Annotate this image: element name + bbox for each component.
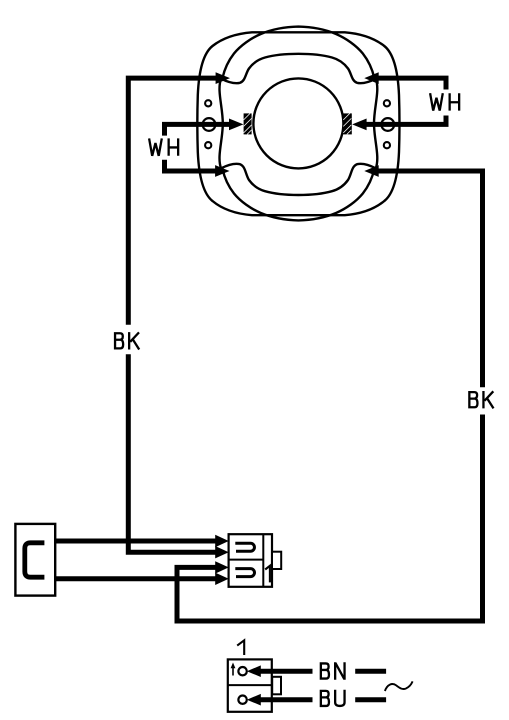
wire: BU lead [259, 697, 313, 702]
motor mounting hole right top [384, 100, 390, 106]
motor mounting hole right bottom [384, 142, 390, 148]
plug connector divider [228, 684, 272, 686]
plug connector label 1 [237, 640, 244, 655]
motor M1 housing outline [197, 32, 399, 215]
arrow into plug pin top [247, 665, 261, 677]
wire: bottom-right winding lead to right BK vertical upper [377, 171, 483, 387]
arrow into connector pin 3 [215, 561, 229, 573]
arrow into left brush [229, 119, 243, 131]
connector X1 latch tab [272, 552, 281, 569]
wire: WH bracket left upper (to left brush) [165, 124, 232, 135]
connector X1 body [229, 534, 272, 587]
arrow into connector pin 4 [215, 573, 229, 585]
arrow into bottom-left winding [215, 165, 229, 177]
motor M1 stator bore contour with field winding smiles [220, 54, 378, 195]
wire: right BK vertical lower, bottom run, up to connector pin 3 [177, 415, 483, 622]
wire: capacitor bottom lead to connector pin 4 [55, 576, 217, 581]
arrow into top-left winding [216, 72, 230, 84]
AC symbol ~ [385, 681, 413, 691]
connector X1 terminal bottom [235, 569, 254, 577]
arrow into plug pin bottom [247, 694, 261, 706]
brush right (hatched) [343, 113, 352, 134]
wire: WH bracket left lower (to bottom-left winding) [165, 160, 218, 171]
wire: WH bracket right lower (to right brush) [365, 116, 446, 125]
arrow into connector pin 2 [215, 546, 229, 558]
motor terminal hole left middle [203, 118, 216, 131]
arrow into connector pin 1 [215, 535, 229, 547]
connector X1 pin label 1 [265, 566, 270, 583]
arrow into top-right winding [364, 72, 378, 84]
label WH right [430, 93, 443, 110]
motor mounting hole left top [205, 100, 211, 106]
brush left (hatched) [244, 113, 252, 134]
plug polarity arrow (small up arrow) [232, 666, 234, 676]
plug latch tab [272, 677, 281, 695]
wire: BN lead [259, 669, 313, 674]
wire: capacitor top lead to connector pin 1 [55, 539, 217, 544]
connector X1 inner column line [262, 534, 264, 587]
wire: BU dash [355, 697, 386, 702]
motor M1 rotor circle [253, 78, 343, 168]
label WH left [149, 138, 162, 155]
wire: BN dash [355, 669, 386, 674]
capacitor C letter [25, 543, 45, 577]
capacitor C box [15, 524, 55, 596]
plug pin circle top [238, 667, 246, 675]
motor mounting hole left bottom [205, 142, 211, 148]
motor M1 stator stack bottom arc [223, 169, 375, 220]
wire: left BK vertical lower part to connector pin 2 [128, 354, 216, 552]
connector X1 terminal top [235, 543, 254, 551]
label BN [321, 662, 329, 679]
motor terminal hole right middle [381, 118, 394, 131]
label BK left [115, 332, 123, 349]
arrow into bottom-right winding [364, 165, 378, 177]
connector X1 divider [228, 559, 263, 561]
arrow into right brush [352, 119, 366, 131]
plug pin circle bottom [238, 696, 246, 704]
label BK right [469, 391, 477, 408]
label BU [321, 690, 329, 707]
wire: top-left winding lead to BK vertical [128, 78, 218, 325]
plug connector body [228, 659, 272, 711]
wire: WH bracket right upper (to top-right winding) [377, 78, 446, 89]
motor M1 stator stack top arc [223, 27, 375, 78]
